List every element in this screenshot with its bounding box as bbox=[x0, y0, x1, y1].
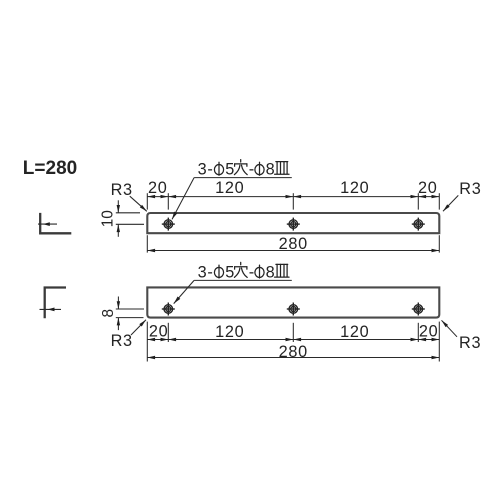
top pitch dimension: extension lines bbox=[147, 193, 439, 209]
hole 1 (front view) bbox=[162, 303, 175, 316]
hole note label (front view) bbox=[172, 262, 291, 304]
svg-text:-: - bbox=[249, 264, 255, 282]
phi symbol 2 bbox=[255, 265, 264, 278]
leader to hole 1 bbox=[172, 178, 194, 220]
front pitch dimension: arrowheads bbox=[147, 338, 439, 341]
svg-text:120: 120 bbox=[340, 179, 369, 197]
hole 3 (top view) bbox=[412, 218, 425, 231]
svg-text:R3: R3 bbox=[111, 332, 133, 350]
svg-text:10: 10 bbox=[100, 210, 117, 227]
phi symbol 2 bbox=[255, 162, 264, 175]
hole 1 (top view) bbox=[162, 218, 175, 231]
label underline bbox=[194, 279, 292, 281]
svg-text:3-: 3- bbox=[198, 264, 214, 282]
top view bar outline bbox=[147, 213, 439, 233]
front pitch dimension: extension lines bbox=[147, 322, 439, 362]
front view bar outline bbox=[147, 287, 439, 317]
svg-text:8: 8 bbox=[100, 309, 117, 318]
svg-text:R3: R3 bbox=[459, 334, 481, 352]
svg-text:280: 280 bbox=[279, 235, 308, 253]
top height 10 dimension bbox=[116, 200, 144, 237]
svg-text:-: - bbox=[249, 161, 255, 179]
hole note label (top view): 3-phi5 hole - phi8 countersink bbox=[170, 160, 291, 221]
top overall 280 dimension bbox=[147, 235, 439, 252]
angle cross-section symbol (front view) bbox=[40, 288, 67, 319]
svg-text:20: 20 bbox=[149, 323, 169, 341]
hole 2 (top view) bbox=[287, 218, 300, 231]
front overall 280 dimension bbox=[147, 357, 439, 359]
svg-text:L=280: L=280 bbox=[23, 158, 77, 179]
svg-text:8: 8 bbox=[266, 264, 276, 282]
phi symbol 1 bbox=[214, 265, 223, 278]
kanji ana (hole) bbox=[234, 160, 247, 175]
svg-text:3-: 3- bbox=[198, 161, 214, 179]
svg-text:120: 120 bbox=[215, 179, 244, 197]
leader to hole 1 bbox=[174, 280, 194, 303]
hole 3 (front view) bbox=[412, 303, 425, 316]
phi symbol 1 bbox=[214, 162, 223, 175]
svg-text:120: 120 bbox=[340, 323, 369, 341]
kanji ana (hole) bbox=[234, 262, 247, 277]
hole 2 (front view) bbox=[287, 303, 300, 316]
svg-text:R3: R3 bbox=[459, 180, 481, 198]
svg-text:R3: R3 bbox=[111, 181, 133, 199]
svg-text:8: 8 bbox=[266, 161, 276, 179]
svg-text:20: 20 bbox=[418, 179, 438, 197]
svg-text:280: 280 bbox=[279, 343, 308, 361]
kanji sara (dish/countersink) bbox=[275, 162, 289, 175]
kanji sara (dish/countersink) bbox=[275, 264, 289, 277]
top pitch dimension: arrowheads bbox=[147, 195, 439, 198]
svg-text:5: 5 bbox=[225, 264, 235, 282]
svg-text:20: 20 bbox=[419, 323, 439, 341]
angle cross-section symbol (top view) bbox=[38, 213, 71, 233]
label underline bbox=[194, 177, 292, 179]
svg-text:20: 20 bbox=[148, 179, 168, 197]
svg-text:5: 5 bbox=[225, 161, 235, 179]
front height 8 dimension bbox=[116, 297, 144, 331]
svg-text:120: 120 bbox=[215, 323, 244, 341]
